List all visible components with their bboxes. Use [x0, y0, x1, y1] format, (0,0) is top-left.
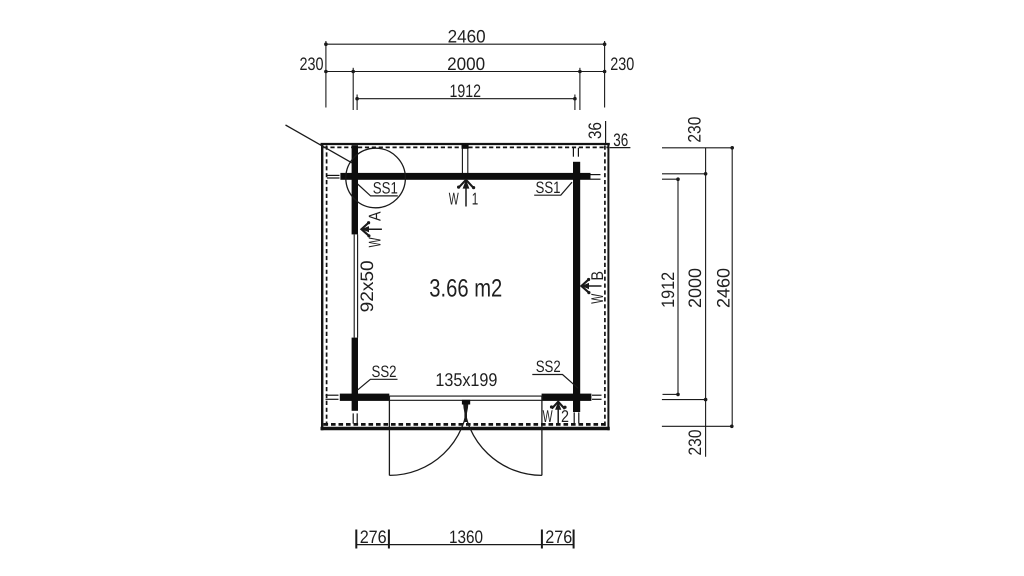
svg-text:SS2: SS2 [372, 363, 397, 381]
svg-text:SS1: SS1 [373, 180, 398, 198]
svg-text:2: 2 [561, 407, 569, 426]
svg-text:135x199: 135x199 [435, 369, 497, 390]
svg-text:230: 230 [685, 430, 705, 456]
svg-text:2000: 2000 [685, 268, 705, 308]
svg-text:2460: 2460 [714, 268, 734, 308]
svg-text:W: W [588, 294, 607, 304]
svg-text:3.66 m2: 3.66 m2 [429, 274, 502, 302]
svg-text:92x50: 92x50 [357, 260, 377, 312]
svg-text:W: W [543, 407, 553, 426]
svg-text:B: B [588, 271, 607, 281]
svg-text:W: W [449, 190, 459, 209]
svg-text:230: 230 [685, 117, 705, 143]
svg-text:A: A [366, 211, 385, 221]
svg-text:1912: 1912 [450, 81, 482, 101]
svg-text:230: 230 [300, 54, 324, 74]
svg-text:2000: 2000 [447, 54, 485, 74]
svg-text:276: 276 [545, 527, 572, 547]
svg-text:1360: 1360 [449, 527, 483, 547]
svg-text:1912: 1912 [658, 272, 678, 308]
svg-text:SS2: SS2 [536, 358, 561, 376]
svg-text:SS1: SS1 [536, 179, 561, 197]
svg-text:1: 1 [472, 190, 479, 209]
svg-text:2460: 2460 [448, 27, 486, 47]
svg-text:276: 276 [360, 527, 387, 547]
svg-text:230: 230 [610, 54, 634, 74]
svg-text:36: 36 [585, 122, 605, 139]
svg-text:W: W [366, 237, 385, 247]
